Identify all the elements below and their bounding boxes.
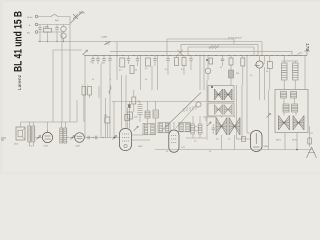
transformer primary b bbox=[293, 116, 304, 131]
svg-text:0,05: 0,05 bbox=[134, 117, 138, 119]
drive pulley bbox=[196, 102, 201, 107]
switch S4 bbox=[208, 45, 219, 49]
svg-text:6,3: 6,3 bbox=[263, 63, 266, 65]
capacitor C1 bbox=[38, 25, 41, 43]
svg-text:0,2: 0,2 bbox=[250, 75, 252, 77]
filter winding 2b bbox=[224, 105, 232, 115]
wire rail y51.3 bbox=[110, 51, 292, 55]
resistor R4 bbox=[145, 58, 151, 70]
svg-text:0,5: 0,5 bbox=[145, 79, 147, 81]
junction dark x207 y60 bbox=[206, 58, 212, 64]
wire vertical x140 bbox=[140, 56, 142, 91]
svg-text:50cm: 50cm bbox=[79, 12, 85, 15]
wire rail y47 bbox=[188, 47, 254, 56]
tube V4 bbox=[169, 122, 185, 152]
terminal A (antenna) bbox=[27, 15, 38, 19]
wire vertical x101 bbox=[100, 64, 102, 138]
wire vertical x200 pair bbox=[200, 56, 204, 91]
title text Lorenz BL 41 und 15 B bbox=[13, 11, 25, 90]
wire vertical x62 down bbox=[61, 42, 63, 123]
wire rail y39 bbox=[167, 39, 234, 56]
tuning drive diagonal 1 bbox=[163, 93, 202, 131]
drive comb bbox=[184, 106, 196, 112]
filter winding 1a bbox=[215, 89, 223, 100]
junction arrow 5 bbox=[206, 117, 211, 126]
wire vertical x207 bbox=[206, 80, 208, 140]
svg-text:0,1: 0,1 bbox=[228, 139, 231, 141]
svg-text:0,1: 0,1 bbox=[119, 70, 122, 72]
transformer mid winding a bbox=[283, 104, 289, 112]
resistor R8 bbox=[266, 56, 272, 91]
tube V2 bbox=[75, 133, 85, 148]
label Pr.4x0,25mm2 bbox=[228, 37, 242, 40]
resistor R3 bbox=[130, 66, 137, 74]
wire vertical x117 bbox=[116, 42, 118, 81]
loudspeaker bbox=[14, 122, 25, 146]
label above coil bbox=[55, 20, 59, 22]
junction blob bbox=[128, 101, 131, 128]
choke Dr2 bbox=[229, 116, 240, 150]
svg-text:0,1: 0,1 bbox=[166, 151, 168, 153]
paper background bbox=[0, 0, 320, 175]
switch S1 antenna bbox=[51, 14, 58, 16]
trimmer C3 arrow bbox=[83, 50, 88, 55]
wire vertical x121.5 bbox=[121, 75, 123, 129]
resistor R15 bbox=[242, 137, 246, 142]
wire vertical x85 bbox=[84, 56, 86, 138]
junction arrow left bbox=[36, 135, 40, 139]
wire y117 stub bbox=[203, 116, 216, 118]
resistor R16 bbox=[241, 56, 245, 86]
resistor R1 bbox=[43, 25, 52, 43]
wire y139 left of rectifier bbox=[237, 138, 251, 140]
resistor R14 bbox=[125, 108, 130, 128]
junction arrow 3 bbox=[112, 135, 116, 139]
mains lead bbox=[296, 126, 313, 150]
wire y137.5 mid bbox=[84, 137, 119, 138]
transformer top winding b bbox=[291, 92, 297, 99]
wire vertical x236.5 bbox=[236, 85, 238, 139]
switch S2 on rail bbox=[101, 37, 111, 46]
svg-text:Pr.4x0,25mm²: Pr.4x0,25mm² bbox=[228, 37, 242, 40]
svg-text:5415: 5415 bbox=[14, 144, 18, 146]
wire vertical x242 bbox=[241, 85, 243, 139]
tube V1 bbox=[42, 122, 52, 148]
wire osc leads bbox=[148, 101, 156, 123]
svg-text:(E): (E) bbox=[27, 33, 30, 35]
page number 179 bbox=[304, 43, 310, 51]
fuse Si bbox=[308, 138, 312, 144]
wire W2 to V2 bbox=[67, 137, 75, 139]
main bus bbox=[84, 55, 307, 57]
wire vertical x157 bbox=[157, 56, 159, 91]
power transformer frame bbox=[275, 90, 308, 133]
capacitor C7 bbox=[165, 56, 170, 76]
capacitor C9 series bbox=[88, 136, 90, 140]
tube indicator AM bbox=[255, 56, 266, 101]
resistor R12 bbox=[127, 112, 137, 119]
svg-text:G354: G354 bbox=[264, 146, 269, 148]
wire can4 leads bbox=[193, 116, 200, 138]
svg-text:6J30: 6J30 bbox=[76, 146, 80, 148]
svg-text:UCH...: UCH... bbox=[44, 146, 50, 148]
filter winding 2a bbox=[215, 105, 223, 115]
wire y138 segment bbox=[186, 138, 206, 143]
page edge mark bbox=[1, 138, 6, 140]
svg-text:50: 50 bbox=[101, 63, 103, 65]
trimmer arrow V3 bbox=[134, 126, 139, 131]
capacitor C6 bbox=[153, 56, 156, 67]
svg-text:5k: 5k bbox=[266, 71, 268, 73]
svg-text:0,1MΩ: 0,1MΩ bbox=[43, 26, 49, 28]
svg-text:0,1: 0,1 bbox=[216, 139, 219, 141]
coil switch wafers bbox=[61, 25, 66, 43]
svg-text:1,5MΩ: 1,5MΩ bbox=[101, 37, 107, 39]
bus junctions bbox=[95, 55, 300, 56]
misc value labels bbox=[92, 67, 252, 153]
svg-text:1: 1 bbox=[87, 85, 88, 87]
osc coil b bbox=[153, 110, 158, 118]
label 50cm bbox=[79, 12, 85, 15]
filter frame lower bbox=[208, 103, 234, 116]
wire top rail y41.5 bbox=[38, 42, 262, 56]
capacitor Cb1 bbox=[91, 56, 94, 65]
capacitor Cb3 bbox=[102, 56, 105, 65]
label under transformer bbox=[276, 140, 297, 142]
capacitor Cb2 bbox=[96, 56, 99, 65]
labels chokes bbox=[216, 139, 231, 141]
mains plug arrow bbox=[307, 147, 317, 158]
svg-text:50: 50 bbox=[135, 70, 137, 72]
svg-text:Lorenz: Lorenz bbox=[17, 75, 22, 90]
capacitor C5 bbox=[136, 56, 139, 67]
capacitor Cb4 bbox=[108, 56, 111, 65]
wire vertical x114 bbox=[113, 101, 115, 137]
svg-text:2: 2 bbox=[82, 85, 83, 87]
filter frame upper bbox=[208, 86, 234, 102]
wire vertical x305 bbox=[304, 56, 306, 90]
osc coil a bbox=[145, 111, 150, 118]
svg-text:0,1: 0,1 bbox=[181, 69, 184, 71]
svg-text:0,1: 0,1 bbox=[220, 67, 222, 69]
svg-text:BL 41 und 15 B: BL 41 und 15 B bbox=[13, 11, 25, 72]
svg-text:0,1: 0,1 bbox=[194, 141, 197, 143]
wire top rail y122 bbox=[21, 121, 78, 123]
svg-text:0,1: 0,1 bbox=[92, 79, 94, 81]
IF can 2 bbox=[158, 123, 170, 133]
transformer primary a bbox=[279, 116, 290, 131]
wire into V1 bbox=[35, 137, 42, 139]
wire vertical x77 bbox=[76, 100, 78, 122]
capacitor C12 bbox=[221, 56, 224, 67]
capacitor C8 bbox=[189, 56, 192, 71]
wire vertical x110 bbox=[109, 64, 111, 138]
resistor R2 bbox=[119, 58, 125, 72]
junction arrow 2 bbox=[70, 135, 74, 139]
output transformer Tr2 bbox=[282, 56, 299, 90]
wire vertical x53 bbox=[52, 50, 54, 122]
transformer mid winding b bbox=[292, 104, 298, 112]
IF can 3 bbox=[179, 122, 191, 131]
svg-text:2: 2 bbox=[110, 79, 111, 81]
wire antenna top bbox=[38, 16, 70, 18]
wire antenna mid bbox=[38, 17, 70, 42]
transformer secondary leads bbox=[285, 133, 297, 150]
svg-text:0,1: 0,1 bbox=[145, 68, 148, 70]
pigtail bbox=[109, 85, 111, 94]
wire V3 right bbox=[132, 135, 151, 140]
svg-text:0,1: 0,1 bbox=[165, 69, 168, 71]
connector cross right bbox=[296, 48, 310, 56]
IF can 4 windings bbox=[191, 124, 202, 134]
wire vertical x99 bbox=[98, 86, 100, 98]
capacitor C10 series bbox=[95, 136, 97, 140]
resistor R10 bbox=[87, 85, 91, 99]
wire vertical x247 bbox=[247, 56, 251, 134]
svg-text:L41S: L41S bbox=[138, 146, 143, 148]
capacitor C4 bbox=[127, 56, 130, 65]
wire vertical x70 down bbox=[69, 42, 71, 123]
wire bottom rail bbox=[155, 149, 313, 151]
resistor R9 bbox=[82, 85, 86, 123]
svg-text:0,1: 0,1 bbox=[90, 62, 93, 64]
svg-text:220 V: 220 V bbox=[276, 140, 282, 142]
wire vertical x152 bbox=[151, 66, 153, 90]
wire vertical x268.5 bbox=[268, 90, 270, 150]
choke W1 bbox=[28, 122, 35, 146]
svg-text:0,1: 0,1 bbox=[209, 151, 211, 153]
filter winding 1b bbox=[224, 89, 232, 100]
wire vertical x105.5 bbox=[105, 98, 107, 138]
capacitor C2 bbox=[55, 25, 58, 43]
terminal E2 (earth) bbox=[27, 31, 38, 35]
resistor R13 bbox=[104, 115, 110, 138]
wire y101.4 bbox=[112, 100, 207, 102]
svg-text:25k: 25k bbox=[236, 73, 239, 75]
svg-text:50-2m: 50-2m bbox=[27, 17, 33, 19]
capacitor C11 bbox=[212, 124, 215, 134]
wire rail y44.3 bbox=[181, 44, 258, 55]
svg-text:L41: L41 bbox=[182, 147, 185, 149]
IF transformer W2 bbox=[60, 122, 67, 143]
coil taps column bbox=[138, 101, 143, 122]
trimmer arrow 50cm bbox=[70, 11, 83, 24]
resistor R11 bbox=[132, 90, 140, 112]
wire vertical x126 bbox=[125, 75, 127, 129]
resistor chain x231 bbox=[229, 56, 239, 86]
lamp La1 bbox=[205, 56, 211, 81]
wire earth bbox=[38, 32, 62, 42]
wire y50 left bbox=[53, 49, 82, 51]
switch S3 bbox=[177, 50, 183, 56]
terminal E1 bbox=[29, 23, 38, 27]
junction arrow right bbox=[266, 113, 270, 117]
resistor R5 bbox=[175, 56, 179, 66]
transformer internal wires bbox=[284, 98, 296, 116]
svg-text:0,1: 0,1 bbox=[138, 101, 141, 103]
choke Dr1 bbox=[216, 116, 227, 150]
svg-text:50 Hz: 50 Hz bbox=[292, 140, 297, 142]
resistor R6 bbox=[181, 56, 186, 76]
tuning drive diagonal 2 bbox=[175, 105, 196, 128]
labels under caps bbox=[90, 62, 103, 65]
IF can 1 bbox=[143, 124, 156, 135]
rectifier tube V5 bbox=[251, 131, 269, 152]
transformer top winding a bbox=[281, 92, 287, 99]
tube V3 (output) bbox=[120, 129, 144, 151]
